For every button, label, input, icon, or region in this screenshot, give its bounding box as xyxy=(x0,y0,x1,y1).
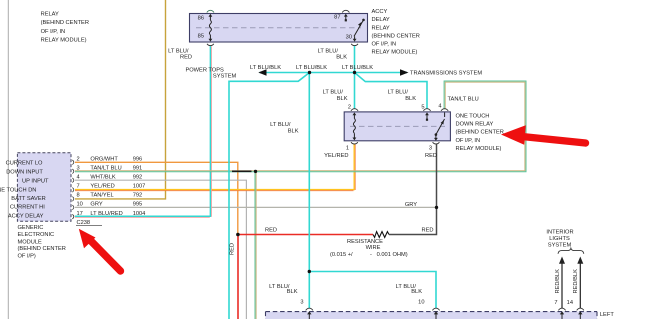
svg-text:GENERIC: GENERIC xyxy=(18,225,44,231)
svg-text:(0.015 +/: (0.015 +/ xyxy=(330,252,353,258)
relay U2 pin 1 connector bump xyxy=(351,142,358,144)
svg-text:3: 3 xyxy=(429,145,432,151)
relay U1 pin 30 connector bump xyxy=(351,44,358,46)
svg-text:BLK: BLK xyxy=(288,128,299,134)
svg-text:4: 4 xyxy=(77,174,80,180)
label: wire LT BLU/BLK (left of arrow) xyxy=(250,65,281,71)
svg-text:BLK: BLK xyxy=(287,289,298,295)
pin number 86 xyxy=(198,16,204,22)
wire LT BLU/BLK relay U1 pin 30 down to relay U2 pin 2 xyxy=(354,46,356,109)
pin number 14 (bottom connector) xyxy=(567,300,573,306)
svg-text:992: 992 xyxy=(133,174,143,180)
resistor: RESISTANCE WIRE zigzag xyxy=(373,232,389,238)
svg-text:INTERIOR: INTERIOR xyxy=(546,230,573,236)
label: relay U1 name xyxy=(372,9,420,56)
svg-text:RED/BLK: RED/BLK xyxy=(573,269,579,294)
svg-text:OF I/P, IN: OF I/P, IN xyxy=(456,138,481,144)
annotation red arrow at ONE TOUCH DOWN RELAY xyxy=(501,125,586,145)
label: wire LT BLU/BLK at pin 30 xyxy=(318,48,348,60)
svg-text:UP INPUT: UP INPUT xyxy=(22,178,49,184)
svg-text:RED: RED xyxy=(180,54,192,60)
label: RED on pin 3 wire (right) xyxy=(421,227,433,233)
svg-text:ELECTRONIC: ELECTRONIC xyxy=(18,232,55,238)
svg-text:BLK: BLK xyxy=(411,289,422,295)
module: bottom connector pin 7 bump xyxy=(558,308,565,310)
pin number 85 xyxy=(198,34,204,40)
svg-text:DOWN RELAY: DOWN RELAY xyxy=(456,122,494,128)
module: bottom connector pin 14 bump xyxy=(577,308,584,310)
svg-text:5: 5 xyxy=(421,104,424,110)
label: RED rotated on red wire going down xyxy=(230,243,236,255)
svg-text:ORG/WHT: ORG/WHT xyxy=(90,156,118,162)
svg-text:10: 10 xyxy=(77,202,83,208)
wire LT BLU/BLK horizontal bus to POWER TOPS and TRANSMISSIONS xyxy=(260,72,408,74)
wire TAN/YEL 792 from GEM pin 8 up to top edge xyxy=(75,0,166,199)
svg-text:995: 995 xyxy=(133,202,143,208)
svg-text:RED: RED xyxy=(265,227,277,233)
wire YEL/RED 1007 from GEM pin 7 to relay U2 pin 1 xyxy=(75,144,355,190)
module GEM input labels xyxy=(0,161,49,220)
wire RED from splice to resistance wire xyxy=(238,234,373,236)
relay U2 pin 5 connector bump xyxy=(423,109,430,111)
svg-text:BLK: BLK xyxy=(337,96,348,102)
wire RED/BLK to interior lights (pin 14) xyxy=(577,257,583,309)
relay U2 pin 2 connector bump xyxy=(351,109,358,111)
svg-text:4: 4 xyxy=(438,103,441,109)
svg-text:DELAY: DELAY xyxy=(372,17,390,23)
label: top left relay note xyxy=(41,12,89,44)
svg-text:LT BLU/RED: LT BLU/RED xyxy=(90,211,122,217)
wire RED (dark) from relay U2 pin 3 down and left to resistance wire xyxy=(389,144,437,234)
svg-text:3: 3 xyxy=(77,165,80,171)
label: wire RED/BLK (pin 7) rotated xyxy=(555,269,561,294)
label: wire LT BLU/BLK at connector pin 3 xyxy=(269,284,298,295)
node B junction dot xyxy=(353,71,356,74)
svg-text:ACCY DELAY: ACCY DELAY xyxy=(8,214,44,220)
relay U2 pin 3 connector bump xyxy=(433,142,440,144)
svg-text:WHT/BLK: WHT/BLK xyxy=(90,174,115,180)
svg-text:MODULE: MODULE xyxy=(18,239,43,245)
svg-text:LIGHTS: LIGHTS xyxy=(549,236,570,242)
pin number 10 (bottom connector) xyxy=(418,299,424,305)
svg-text:996: 996 xyxy=(133,156,143,162)
pin number 1 (relay U2) xyxy=(346,145,349,151)
svg-text:(BEHIND CENTER: (BEHIND CENTER xyxy=(372,33,420,39)
svg-text:TAN/LT BLU: TAN/LT BLU xyxy=(90,165,121,171)
wire RED/BLK to interior lights (pin 7) xyxy=(559,257,565,309)
label: wire LT BLU/RED at pin 85 xyxy=(168,48,192,60)
svg-text:ONE TOUCH DN: ONE TOUCH DN xyxy=(0,187,36,193)
svg-text:RELAY MODULE): RELAY MODULE) xyxy=(456,146,502,152)
svg-text:7: 7 xyxy=(554,300,557,306)
svg-text:BLK: BLK xyxy=(336,54,347,60)
svg-text:OF I/P): OF I/P) xyxy=(18,254,36,260)
svg-text:3: 3 xyxy=(300,299,303,305)
svg-text:85: 85 xyxy=(198,34,204,40)
svg-text:RELAY: RELAY xyxy=(41,12,59,18)
svg-text:LEFT: LEFT xyxy=(600,312,614,318)
wire WHT/BLK 992 from GEM pin 4 down off page xyxy=(75,180,246,319)
pin number 3 (relay U2) xyxy=(429,145,432,151)
node A junction dot xyxy=(308,71,311,74)
wire: black overlap segment on circuit 991 xyxy=(232,170,252,172)
relay U1 pin 85 connector bump xyxy=(207,44,214,46)
pin number 7 (bottom connector) xyxy=(554,300,557,306)
relay box U2 ONE TOUCH DOWN RELAY xyxy=(344,112,450,141)
svg-text:WIRE: WIRE xyxy=(366,245,381,251)
relay U1 pin 87 connector bump xyxy=(342,10,349,12)
svg-text:(BEHIND CENTER: (BEHIND CENTER xyxy=(456,130,504,136)
svg-text:1007: 1007 xyxy=(133,183,146,189)
module: bottom connector pin 7 arrow xyxy=(560,311,564,319)
svg-text:2: 2 xyxy=(77,156,80,162)
svg-text:YEL/RED: YEL/RED xyxy=(90,183,114,189)
svg-text:RED: RED xyxy=(425,153,437,159)
label: RESISTANCE WIRE value xyxy=(330,239,408,258)
label: wire LT BLU/BLK (node B) xyxy=(342,65,373,71)
svg-text:RED: RED xyxy=(421,227,433,233)
svg-text:RELAY MODULE): RELAY MODULE) xyxy=(41,38,87,44)
label: wire LT BLU/BLK mid-run xyxy=(270,122,299,134)
label: POWER TOPS SYSTEM xyxy=(185,67,236,79)
module: bottom connector pin 3 arrow xyxy=(307,311,311,319)
svg-text:TAN/LT BLU: TAN/LT BLU xyxy=(448,97,479,103)
svg-text:7: 7 xyxy=(77,183,80,189)
svg-text:1: 1 xyxy=(346,145,349,151)
svg-text:14: 14 xyxy=(567,300,573,306)
pin number 30 xyxy=(346,34,352,40)
relay U1 pin 86 connector bump xyxy=(207,10,214,12)
module: bottom connector pin 10 arrow xyxy=(434,311,438,319)
svg-text:RELAY: RELAY xyxy=(372,25,390,31)
pin number 2 (relay U2) xyxy=(348,104,351,110)
relay U2 pin 5 contact arrow xyxy=(425,112,429,120)
relay U1 switch blade pin 30 to 87 xyxy=(353,19,365,42)
svg-text:SYSTEM: SYSTEM xyxy=(548,242,572,248)
svg-text:RED: RED xyxy=(230,243,236,255)
label: wire TAN/LT BLU at relay U2 pin 4 xyxy=(448,97,479,103)
relay U2 pin 4 connector bump xyxy=(441,109,448,111)
annotation red arrow at GEM C238 xyxy=(79,229,121,271)
svg-text:CURRENT LO: CURRENT LO xyxy=(6,161,43,167)
svg-text:2: 2 xyxy=(348,104,351,110)
svg-text:(BEHIND CENTER: (BEHIND CENTER xyxy=(41,20,89,26)
svg-text:TRANSMISSIONS SYSTEM: TRANSMISSIONS SYSTEM xyxy=(410,71,482,77)
svg-text:ACCY: ACCY xyxy=(372,9,388,15)
svg-text:SYSTEM: SYSTEM xyxy=(213,73,237,79)
wire LT BLU/BLK from node A down to lower splice xyxy=(308,73,310,272)
label: relay U2 name xyxy=(456,114,504,152)
svg-text:YEL/RED: YEL/RED xyxy=(324,153,348,159)
label: LEFT at bottom connector xyxy=(600,312,614,318)
svg-text:8: 8 xyxy=(77,193,80,199)
svg-text:GRY: GRY xyxy=(90,202,102,208)
label: GENERIC ELECTRONIC MODULE note xyxy=(18,225,66,260)
svg-text:BLK: BLK xyxy=(405,96,416,102)
label: RED on horizontal red wire (left) xyxy=(265,227,277,233)
svg-text:LT BLU/BLK: LT BLU/BLK xyxy=(296,65,327,71)
svg-text:BATT SAVER: BATT SAVER xyxy=(11,196,45,202)
module GEM pin connector arcs xyxy=(72,160,73,219)
svg-text:(BEHIND CENTER: (BEHIND CENTER xyxy=(18,246,66,252)
svg-text:CURRENT HI: CURRENT HI xyxy=(10,205,45,211)
wire ORG/WHT 996 from GEM pin 2 to splice xyxy=(75,162,238,234)
label: wire RED/BLK (pin 14) rotated xyxy=(573,269,579,294)
label: wire LT BLU/BLK at relay U2 pin 2 xyxy=(323,90,348,102)
svg-text:- 0.001 OHM): - 0.001 OHM) xyxy=(370,252,408,258)
relay U2 coil (pins 2-1) xyxy=(353,112,357,140)
svg-text:ONE TOUCH: ONE TOUCH xyxy=(456,114,490,120)
module GEM circuit number column xyxy=(133,156,146,217)
pin number 87 xyxy=(334,15,340,21)
relay box U1 ACCY DELAY RELAY xyxy=(190,14,368,43)
module GEM wire name column xyxy=(90,156,122,217)
label: wire LT BLU/BLK at relay U2 pin 5 xyxy=(388,90,417,102)
relay U1 coil (pins 86-85) xyxy=(209,14,213,42)
label: wire LT BLU/BLK (node A) xyxy=(296,65,327,71)
wire GRY 995 from GEM pin 10 to junction with RED wire xyxy=(75,206,437,208)
svg-text:LT BLU/BLK: LT BLU/BLK xyxy=(342,65,373,71)
node: splice dot ORG/WHT to RED xyxy=(236,233,240,237)
svg-text:LT BLU/: LT BLU/ xyxy=(388,90,409,96)
node: splice dot on circuit 991 xyxy=(254,170,257,173)
svg-text:LT BLU/: LT BLU/ xyxy=(270,122,291,128)
arrow to POWER TOPS SYSTEM xyxy=(258,69,266,75)
label: TRANSMISSIONS SYSTEM xyxy=(410,71,482,77)
wire LT BLU/RED 1004 from GEM pin 17 to relay U1 pin 85 xyxy=(75,46,212,218)
wire: left page margin vertical gray line xyxy=(7,0,9,319)
module GEM box (GENERIC ELECTRONIC MODULE) xyxy=(17,153,71,222)
svg-text:GRY: GRY xyxy=(405,202,417,208)
svg-text:86: 86 xyxy=(198,16,204,22)
wire TAN/LT BLU 991 from GEM pin 3 to relay U2 pin 4 (loop) xyxy=(75,81,526,172)
label: GRY on gray wire xyxy=(405,202,417,208)
svg-text:OF I/P, IN: OF I/P, IN xyxy=(41,29,66,35)
module: bottom connector pin 14 arrow xyxy=(578,311,582,319)
label: wire RED at relay U2 pin 3 xyxy=(425,153,437,159)
svg-text:LT BLU/BLK: LT BLU/BLK xyxy=(250,65,281,71)
svg-text:1004: 1004 xyxy=(133,211,146,217)
wire TAN/LT BLU branch down off page at splice xyxy=(255,172,256,319)
svg-text:87: 87 xyxy=(334,15,340,21)
svg-text:991: 991 xyxy=(133,165,143,171)
pin number 5 (relay U2) xyxy=(421,104,424,110)
wire RED down off page from splice xyxy=(237,235,239,319)
svg-text:RED/BLK: RED/BLK xyxy=(555,269,561,294)
svg-text:10: 10 xyxy=(418,299,424,305)
brace over interior lights wires xyxy=(558,248,584,254)
arrow to TRANSMISSIONS SYSTEM xyxy=(400,69,409,76)
svg-text:OF I/P, IN: OF I/P, IN xyxy=(372,42,397,48)
module: bottom connector pin 10 bump xyxy=(432,308,439,310)
node: junction dot GRY on pin 3 wire xyxy=(435,206,438,209)
wire LT BLU/BLK lower run to connector pins 3 and 10 xyxy=(309,272,436,309)
svg-text:RELAY MODULE): RELAY MODULE) xyxy=(372,50,418,56)
svg-text:LT BLU/: LT BLU/ xyxy=(323,90,344,96)
label: INTERIOR LIGHTS SYSTEM xyxy=(546,230,573,249)
svg-text:30: 30 xyxy=(346,34,352,40)
wire LT BLU/BLK branch from node B to relay U2 pin 5 xyxy=(355,73,428,110)
connector C238 label xyxy=(76,220,102,226)
svg-text:DOWN INPUT: DOWN INPUT xyxy=(6,170,43,176)
svg-text:17: 17 xyxy=(77,211,83,217)
module: bottom connector box (LEFT) xyxy=(266,312,598,319)
relay U2 switch blade pin 3 to 4 xyxy=(434,113,445,141)
node: lower splice dot LT BLU/BLK xyxy=(308,270,311,273)
wire LT BLU/BLK branch from node A down-left then down off page xyxy=(229,73,310,319)
pin number 3 (bottom connector) xyxy=(300,299,303,305)
module: bottom connector pin 3 bump xyxy=(306,308,313,310)
label: wire LT BLU/BLK at connector pin 10 xyxy=(396,284,423,295)
module GEM pin numbers column xyxy=(77,156,83,217)
svg-text:TAN/YEL: TAN/YEL xyxy=(90,193,113,199)
label: wire YEL/RED at relay U2 pin 1 xyxy=(324,153,348,159)
relay U1 pin 87 contact arrow xyxy=(344,14,348,22)
svg-text:792: 792 xyxy=(133,193,143,199)
pin number 4 (relay U2) xyxy=(438,103,441,109)
